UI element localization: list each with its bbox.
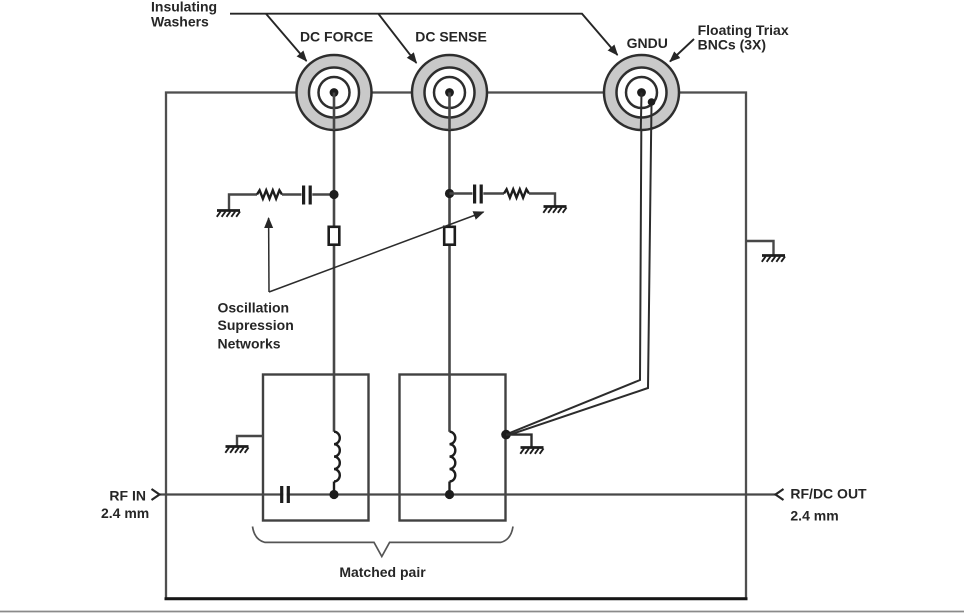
svg-text:BNCs (3X): BNCs (3X) <box>698 37 766 53</box>
svg-text:DC FORCE: DC FORCE <box>300 28 373 44</box>
svg-text:GNDU: GNDU <box>627 35 668 51</box>
svg-text:DC SENSE: DC SENSE <box>415 28 487 44</box>
svg-text:Networks: Networks <box>218 335 281 351</box>
svg-text:Matched pair: Matched pair <box>339 564 426 580</box>
svg-text:Washers: Washers <box>151 13 209 29</box>
svg-text:RF/DC OUT: RF/DC OUT <box>790 486 867 502</box>
svg-text:2.4 mm: 2.4 mm <box>790 507 838 523</box>
svg-text:RF IN: RF IN <box>109 488 146 504</box>
svg-text:2.4 mm: 2.4 mm <box>101 505 149 521</box>
svg-text:Supression: Supression <box>218 317 294 333</box>
svg-text:Oscillation: Oscillation <box>218 299 290 315</box>
